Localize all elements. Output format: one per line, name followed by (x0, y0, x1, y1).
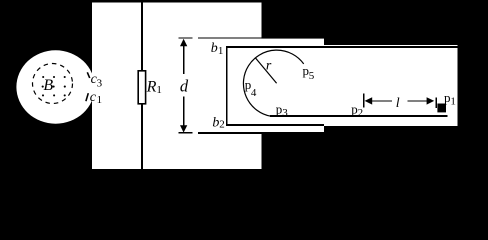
d arrow line upper (183, 44, 185, 74)
beam circular path (arc) (243, 50, 303, 116)
l dimension line right (408, 100, 428, 102)
B field dots grid (42, 76, 66, 97)
svg-text:1: 1 (218, 45, 224, 57)
l dimension line left (371, 100, 392, 102)
svg-text:3: 3 (282, 107, 288, 119)
svg-text:R: R (146, 79, 157, 96)
svg-text:B: B (43, 77, 53, 94)
svg-text:3: 3 (97, 77, 103, 89)
l right arrowhead (427, 97, 435, 104)
bottom plate slab (198, 126, 324, 132)
top plate slab (198, 39, 324, 47)
d arrow lower head (180, 125, 187, 132)
particle source square (437, 104, 446, 113)
d dimension lower tick (179, 132, 193, 134)
bottom plate edge line (198, 132, 324, 134)
svg-text:4: 4 (251, 87, 257, 99)
top plate edge line (198, 37, 324, 39)
svg-text:1: 1 (450, 95, 456, 107)
resistor R1 box (138, 71, 145, 104)
d arrow line lower (183, 97, 185, 127)
wire upper segment (141, 3, 143, 71)
radius line (255, 58, 276, 84)
tube bottom border (226, 124, 324, 126)
l dimension left tick (363, 94, 365, 108)
c3 terminal tick (87, 72, 89, 78)
d dimension upper tick (179, 37, 193, 39)
tube top border (226, 46, 457, 48)
l left arrowhead (365, 97, 373, 104)
beam line (270, 115, 447, 117)
vacuum tube region (226, 45, 457, 126)
dashed field boundary circle (33, 64, 73, 104)
c1 terminal tick (86, 93, 88, 101)
svg-text:b: b (211, 41, 218, 56)
d arrow upper head (180, 39, 187, 46)
svg-text:2: 2 (219, 118, 225, 130)
svg-text:l: l (396, 96, 400, 111)
circuit panel (white rectangle) (92, 3, 262, 170)
svg-text:1: 1 (97, 94, 103, 106)
svg-text:p: p (276, 101, 283, 116)
wire lower segment (141, 104, 143, 169)
coil disk (solenoid end view) (16, 50, 94, 123)
svg-text:d: d (180, 77, 189, 96)
svg-text:5: 5 (309, 70, 315, 82)
svg-text:2: 2 (358, 107, 364, 119)
tube left border (226, 46, 228, 126)
svg-text:r: r (266, 58, 272, 73)
svg-text:1: 1 (156, 84, 162, 96)
l dimension right tick (435, 98, 437, 108)
